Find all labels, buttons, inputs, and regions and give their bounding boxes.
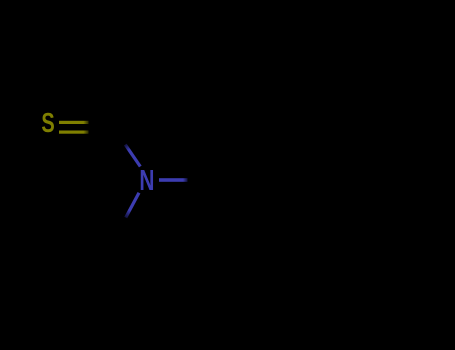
double bond C=S, upper line (sulfur-colored half): [59, 121, 89, 124]
wire N-phenyl carbon half: [188, 179, 216, 182]
wire C-N carbon half: [110, 122, 125, 144]
bond N-C6H4, nitrogen-colored half (horizontal toward phenyl ring): [159, 178, 188, 182]
invisible carbon skeleton (black on black): thioformyl C, N-methyl C, benzene ring, ring methyl: [110, 106, 344, 254]
bond N-CH3, nitrogen-colored half (diagonal down-left to methyl): [126, 193, 139, 218]
double bond C=S, lower line (sulfur-colored half): [59, 131, 89, 134]
wire N-CH3 carbon half: [112, 218, 125, 243]
benzene ring (invisible): [216, 106, 344, 254]
svg-text:N: N: [139, 165, 154, 197]
bond C-N, nitrogen-colored half (diagonal into N from upper left): [125, 145, 140, 167]
svg-text:S: S: [41, 108, 54, 139]
